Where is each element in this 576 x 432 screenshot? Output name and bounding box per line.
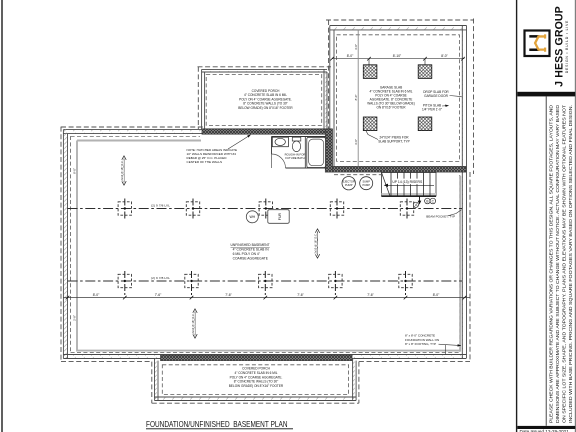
wall: garage left (330, 26, 334, 167)
svg-text:COVERED PORCH: COVERED PORCH (242, 367, 270, 371)
footing dashed outline: basement left (60, 127, 62, 362)
wall: basement left (63, 130, 67, 359)
inner footing dashed: basement top-left (71, 136, 200, 138)
svg-text:4" CONCRETE SLAB IN 6 MIL: 4" CONCRETE SLAB IN 6 MIL (234, 371, 277, 375)
footing dashed outline: top porch top (198, 66, 332, 68)
footing dashed outline: garage right (473, 19, 475, 175)
svg-text:8'-0": 8'-0" (354, 95, 358, 101)
svg-text:B: B (426, 199, 428, 203)
foundation wall note (405, 334, 461, 355)
drop slab note (423, 90, 462, 98)
logo black bar bottom (529, 49, 539, 52)
pier G1 (363, 65, 377, 79)
wall: bottom porch left (155, 359, 159, 401)
svg-text:COARSE AGGREGATE: COARSE AGGREGATE (233, 257, 269, 261)
slab dashed inner: top porch (206, 74, 322, 125)
title block inner divider (545, 96, 547, 425)
svg-text:7'-6": 7'-6" (367, 293, 374, 297)
black divider bar upper (517, 92, 575, 97)
svg-text:GARAGE DOOR: GARAGE DOOR (424, 94, 448, 98)
slab dashed inner: bottom porch (162, 365, 348, 395)
footing dashed: bottom porch bottom (152, 402, 359, 404)
svg-text:8'-0": 8'-0" (441, 54, 448, 58)
column P5 (400, 199, 413, 219)
wall: top porch top (202, 69, 327, 72)
bathtub (307, 137, 326, 167)
pier G2 (418, 65, 432, 79)
unfinished basement label (231, 243, 270, 261)
svg-text:2x10 @ 16" O.C.: 2x10 @ 16" O.C. (191, 313, 195, 334)
svg-text:2'-8": 2'-8" (72, 315, 76, 321)
beam line 2 (68, 280, 463, 282)
toilet (292, 137, 301, 141)
columns row 2 (beam 2) (118, 271, 412, 296)
footing dashed: bottom porch left (151, 362, 153, 404)
column P1 (118, 199, 131, 219)
slab inset gray line basement (77, 141, 460, 351)
svg-text:POLY ON 4" COARSE AGGREGATE.: POLY ON 4" COARSE AGGREGATE. (230, 375, 283, 379)
hatched 10in wall: vertical porch-garage junction (325, 129, 332, 172)
svg-text:2x10 @ 16" O.C.: 2x10 @ 16" O.C. (120, 160, 124, 181)
svg-text:BELOW GRADE) ON 8"X16" FOOTER: BELOW GRADE) ON 8"X16" FOOTER (238, 106, 293, 110)
svg-text:8'-0": 8'-0" (433, 293, 440, 297)
bath bottom line (286, 167, 327, 169)
svg-text:PLEASE CHECK WITH BUILDER REGA: PLEASE CHECK WITH BUILDER REGARDING VARI… (548, 104, 553, 423)
joist marker 1 (120, 156, 126, 185)
svg-text:8'-10": 8'-10" (393, 54, 402, 58)
svg-text:1/4" PER 1'-0": 1/4" PER 1'-0" (422, 108, 442, 112)
svg-text:2x10 @ 16" O.C.: 2x10 @ 16" O.C. (314, 233, 318, 254)
svg-text:ON 8"X16" FOOTER: ON 8"X16" FOOTER (376, 106, 406, 110)
vanity (272, 137, 288, 147)
svg-text:7'-6": 7'-6" (297, 293, 304, 297)
piers note (366, 131, 410, 144)
slab inset gray line top segment (77, 140, 201, 142)
footing dashed outline: top porch left (197, 67, 199, 129)
wall: basement top-left (63, 130, 203, 134)
beam line 1 (68, 208, 463, 210)
svg-text:DESIGN • BUILD • LIVE: DESIGN • BUILD • LIVE (565, 20, 569, 73)
svg-text:INCLUDED WITH BASE PRICING. PR: INCLUDED WITH BASE PRICING. PRICING AND … (568, 105, 573, 423)
footing dashed outline: garage/porch left (328, 20, 330, 130)
svg-text:CENTER OF THE WALLS: CENTER OF THE WALLS (187, 160, 223, 164)
footing dashed outline: basement right (469, 172, 471, 362)
svg-text:8" x 8" FOOTING, TYP: 8" x 8" FOOTING, TYP (405, 342, 436, 346)
columns row 1 (beam 1) (118, 199, 414, 219)
column P2 (186, 199, 199, 219)
inner footing dashed: basement left (70, 136, 72, 353)
wall: basement/garage right (462, 26, 466, 359)
joist marker 2 (314, 229, 320, 258)
slab dashed inner: garage (337, 35, 460, 162)
svg-text:6 MIL POLY ON 4": 6 MIL POLY ON 4" (233, 252, 261, 256)
furnace FUR (268, 210, 289, 224)
svg-text:8'-0": 8'-0" (347, 54, 354, 58)
garage slab text (367, 86, 415, 110)
garage interior vertical line (357, 30, 359, 167)
wall: bottom porch bottom (155, 397, 357, 401)
hatched 10in wall: under top porch (202, 129, 332, 134)
column P4 (330, 199, 343, 219)
tag circle C (430, 198, 436, 204)
garage dimension line (330, 54, 465, 65)
svg-text:PUMP: PUMP (362, 183, 370, 187)
column P6 (118, 271, 131, 296)
svg-text:(2) 9 7/8 LVL: (2) 9 7/8 LVL (151, 204, 170, 208)
stairs (382, 173, 437, 205)
tub separation wall (304, 137, 306, 169)
bath top line (272, 136, 327, 138)
svg-text:FOUNDATION/UNFINISHED BASEMEN: FOUNDATION/UNFINISHED BASEMENT PLAN (146, 420, 288, 429)
hatched walls note (187, 135, 251, 164)
svg-text:ON SPECIFIC LOT SIZE, SHAPE, A: ON SPECIFIC LOT SIZE, SHAPE, AND TOPOGRA… (561, 105, 566, 423)
svg-text:3'-0": 3'-0" (354, 139, 358, 145)
black divider bar lower (517, 426, 575, 429)
column P10 (399, 271, 412, 296)
svg-text:PUMP: PUMP (345, 183, 353, 187)
tag circle B (425, 198, 431, 204)
pier G4 (418, 117, 432, 131)
hatched 10in wall: garage bottom / basement top-right (333, 166, 467, 172)
footing dashed outline: garage top (326, 19, 474, 21)
svg-text:SLAB SUPPORT, TYP: SLAB SUPPORT, TYP (378, 140, 409, 144)
logo gold bracket (535, 34, 546, 51)
water heater WH (246, 211, 258, 223)
svg-text:8'-0": 8'-0" (93, 293, 100, 297)
section tag A (413, 202, 418, 207)
svg-text:UNFINISHED BASEMENT: UNFINISHED BASEMENT (231, 243, 270, 247)
column P3 (259, 199, 272, 219)
hatched 10in wall: above bottom porch (161, 355, 353, 360)
bottom dimension line (63, 293, 470, 299)
bath rough-in (272, 137, 327, 169)
footing dashed: bottom porch right (358, 362, 360, 404)
svg-text:BELOW GRADE) ON 8"X16" FOOTER: BELOW GRADE) ON 8"X16" FOOTER (229, 384, 284, 388)
svg-text:UP 14 (13) RISERS: UP 14 (13) RISERS (392, 180, 423, 184)
svg-text:FUR: FUR (278, 213, 282, 221)
footing dashed outline: basement bottom (61, 361, 152, 363)
bath door arc (272, 154, 286, 168)
logo box (525, 31, 550, 57)
top porch text (238, 89, 293, 110)
svg-text:7'-6": 7'-6" (225, 293, 232, 297)
logo black bar top (529, 35, 539, 38)
svg-text:FUTURE BATH: FUTURE BATH (285, 156, 304, 160)
wall: bottom porch right (353, 359, 357, 401)
wall: top porch left (202, 69, 205, 129)
pier G3 (363, 117, 377, 131)
svg-text:DIMENSIONS ARE APPROXIMATE AND: DIMENSIONS ARE APPROXIMATE AND ARE SUBJE… (555, 104, 560, 423)
svg-text:J HESS GROUP: J HESS GROUP (554, 6, 566, 87)
wall: garage top (330, 26, 467, 30)
inner footing dashed: basement right (459, 175, 461, 353)
svg-text:(2) 9 7/8 LVL: (2) 9 7/8 LVL (151, 276, 170, 280)
svg-text:WH: WH (249, 215, 255, 219)
svg-text:7'-6": 7'-6" (155, 293, 162, 297)
svg-text:3'-0": 3'-0" (354, 44, 358, 50)
column P7 (185, 271, 198, 296)
beam pocket note (426, 210, 461, 219)
title block left border (516, 0, 518, 432)
svg-text:4" CONCRETE SLAB IN: 4" CONCRETE SLAB IN (233, 248, 270, 252)
pitch slab note (422, 104, 448, 112)
page border left (1, 0, 3, 432)
footing dashed outline: basement top-left (61, 126, 203, 128)
inner footing dashed: below garage band (334, 174, 381, 176)
wall: basement bottom (63, 355, 466, 359)
column P8 (259, 271, 272, 296)
sump pump (360, 177, 373, 190)
bottom porch text (229, 367, 284, 389)
title block right edge (574, 0, 576, 432)
inner footing dashed: basement bottom (71, 352, 460, 354)
svg-text:8" CONCRETE WALLS (TO 30": 8" CONCRETE WALLS (TO 30" (234, 380, 278, 384)
joist marker 3 (191, 309, 197, 338)
wall: top porch right (324, 69, 327, 129)
column P9 (329, 271, 342, 296)
bath left wall line (271, 137, 273, 155)
svg-text:8'-0": 8'-0" (72, 168, 76, 174)
ejector pump (342, 177, 355, 190)
plan title underline (146, 428, 293, 430)
